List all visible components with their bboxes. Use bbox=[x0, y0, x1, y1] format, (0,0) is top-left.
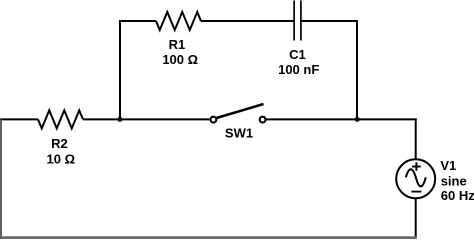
node junction left bbox=[117, 117, 122, 122]
wire V1 bottom lead bbox=[415, 198, 417, 238]
svg-text:V1: V1 bbox=[440, 158, 456, 173]
wire R2 to switch bbox=[83, 118, 210, 120]
svg-text:10 Ω: 10 Ω bbox=[47, 151, 76, 166]
resistor R2 bbox=[38, 110, 83, 128]
wire left vertical bbox=[0, 119, 2, 239]
capacitor C1 bbox=[294, 1, 301, 41]
voltage source V1 bbox=[396, 159, 435, 198]
svg-text:60 Hz: 60 Hz bbox=[441, 188, 474, 203]
wire C1 to right corner bbox=[301, 20, 358, 22]
svg-text:100 nF: 100 nF bbox=[278, 62, 319, 77]
svg-text:sine: sine bbox=[441, 174, 467, 189]
svg-text:R1: R1 bbox=[169, 37, 186, 52]
wire switch to V1 corner bbox=[266, 118, 417, 120]
wire top-branch right vertical bbox=[356, 20, 358, 119]
wire bottom horizontal bbox=[0, 236, 417, 239]
node junction right bbox=[355, 117, 360, 122]
wire top left horizontal bbox=[119, 20, 156, 22]
svg-text:100 Ω: 100 Ω bbox=[162, 52, 198, 67]
resistor R1 bbox=[156, 12, 201, 30]
svg-text:SW1: SW1 bbox=[225, 126, 253, 141]
wire middle left segment bbox=[0, 118, 38, 120]
wire top-branch left vertical bbox=[119, 21, 121, 119]
svg-text:C1: C1 bbox=[289, 47, 306, 62]
svg-text:R2: R2 bbox=[51, 136, 68, 151]
switch SW1 bbox=[211, 104, 266, 123]
wire R1 to C1 bbox=[201, 20, 294, 22]
wire V1 top lead bbox=[415, 118, 417, 159]
